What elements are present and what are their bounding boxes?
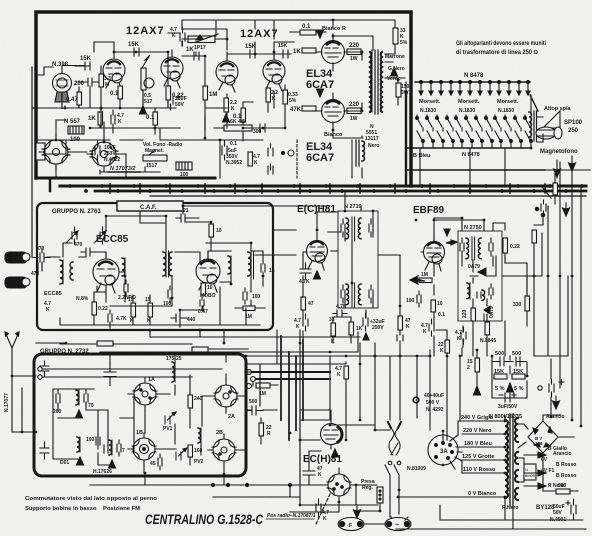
capacitor 0.1 top EL34 xyxy=(290,30,326,35)
capacitor 100 mid xyxy=(168,286,172,302)
wire top rails 2732 xyxy=(42,369,222,377)
resistor 10 xyxy=(209,224,214,237)
capacitor 0.5 xyxy=(541,200,546,215)
variable capacitor tune 1 xyxy=(66,227,78,244)
resistor 0.1 (stage2) xyxy=(153,112,158,125)
N557 coil 100 xyxy=(68,126,84,134)
diode 0A79 lower xyxy=(484,306,490,320)
potentiometer 1P17 xyxy=(188,20,223,43)
wire 2763 interior 1 xyxy=(47,216,166,259)
electrolytic 50uF 50V right xyxy=(566,499,576,520)
IF T1 coil right xyxy=(358,218,361,239)
trimmer PV2 xyxy=(176,448,187,460)
wire top box y140 xyxy=(36,139,143,141)
capacitor 15K (stage4 coupling) xyxy=(238,50,260,58)
dot node xyxy=(281,151,284,154)
electrolytic 16uF 250V xyxy=(95,141,100,160)
wire ech81 1 xyxy=(317,191,361,283)
right border wire inner xyxy=(580,186,582,426)
wire top box misc 1 xyxy=(94,29,274,61)
ground arrow stage3 xyxy=(223,114,230,122)
wire 2732 mesh xyxy=(53,389,134,465)
bus junction dots xyxy=(68,184,584,193)
wire to right column xyxy=(502,236,542,296)
EBF89 labels xyxy=(406,205,522,354)
wire 580 xyxy=(543,459,578,491)
capacitor 4.7K ech81 grid xyxy=(300,263,311,279)
triode V1a 12AX7 xyxy=(103,52,125,90)
wire mid horizontals low xyxy=(90,473,328,497)
capacitor 4.7K mid xyxy=(333,310,347,317)
tube V2a dark electrodes xyxy=(221,63,233,66)
wire magnetofono xyxy=(545,170,590,178)
capacitor 0.47 xyxy=(200,297,204,309)
ground arrow rf2 xyxy=(77,457,84,465)
wire top box misc 4 xyxy=(205,116,285,178)
capacitor pair fono xyxy=(268,144,273,174)
bus line 3 thin xyxy=(150,195,586,197)
resistor 1K cathode xyxy=(98,112,103,125)
resistor 0.1 xyxy=(118,86,123,99)
capacitor 15K (input) xyxy=(75,62,90,70)
resistor 33K xyxy=(331,323,336,336)
RF cap 0.1 left xyxy=(56,389,60,408)
lamp F xyxy=(338,518,364,531)
wafer switch 2A xyxy=(210,379,242,413)
wire ech osc left xyxy=(300,410,331,485)
ground arrow ech tube xyxy=(332,449,339,457)
pentode EL34 lower xyxy=(316,93,349,130)
ratio detector coil xyxy=(467,283,470,299)
coil cathode ECC85 xyxy=(122,258,125,276)
IF T2 cap left xyxy=(341,285,345,303)
wire horizontal y352 xyxy=(100,332,358,352)
ground arrow divider xyxy=(507,383,514,392)
resistor 0.22 xyxy=(166,86,171,100)
resistor 580 xyxy=(556,489,570,494)
lower rail wire y128 xyxy=(90,125,180,133)
IF transformer box N 2750 xyxy=(458,231,502,321)
RF cap 70 xyxy=(84,390,88,406)
wire bridge xyxy=(518,415,574,459)
underline pos radio xyxy=(266,518,314,520)
tube V2b dark electrodes xyxy=(268,62,280,65)
main selector switch blade xyxy=(530,95,538,111)
resistor 22K ebf xyxy=(445,340,450,353)
ground arrow EL34 upper xyxy=(317,30,324,38)
resistor 47 xyxy=(301,297,306,310)
voltage rail 220V xyxy=(462,433,505,435)
capacitor 4.7K top xyxy=(168,27,185,46)
capacitor below 47K xyxy=(397,332,403,344)
capacitor 100 right xyxy=(243,288,247,304)
capacitor 300 xyxy=(252,124,270,132)
IF T2 cap right xyxy=(369,285,373,303)
resistor 160 xyxy=(188,445,193,457)
top chassis box border xyxy=(36,12,411,186)
resistor 0.1 (stage3 anode) xyxy=(241,108,246,122)
RF coil 3 xyxy=(109,440,112,455)
coil 100 (tone) xyxy=(176,162,192,170)
feedthrough cap left a xyxy=(40,361,49,376)
right border wire outer xyxy=(545,170,572,420)
speaker matching transformer xyxy=(529,110,537,142)
ground arrow ebf89 xyxy=(444,229,450,236)
underline N17073 xyxy=(108,171,140,173)
capacitor 4.7K left xyxy=(108,310,112,326)
IF T3 cap right xyxy=(489,238,493,256)
resistor 4.7K (fono) xyxy=(248,152,253,166)
wire top box misc 3 xyxy=(36,120,126,178)
resistor 1K mid xyxy=(349,322,354,335)
capacitor 4.7K bypass xyxy=(111,110,115,128)
rectifier bridge BY126 xyxy=(528,421,558,453)
resistor 4.7K right top xyxy=(553,183,558,195)
wafer switch 1A xyxy=(128,377,162,411)
Magnetofono arrow xyxy=(554,160,561,177)
ground arrow stage2 xyxy=(140,106,147,114)
wire verticals mid band xyxy=(277,330,460,440)
resistor 33K 5% xyxy=(393,28,398,44)
coil 175-25 xyxy=(172,362,175,382)
wire bottom bus to transformer xyxy=(530,95,532,148)
resistor 0.22 left xyxy=(92,302,97,315)
resistor 220 1W upper xyxy=(347,49,361,55)
resistor 10 MOBO xyxy=(201,283,206,295)
voltage rail 0V xyxy=(398,496,505,498)
tube V1a dark electrodes xyxy=(108,61,120,64)
GRUPPO N.2763 box xyxy=(37,203,273,330)
capacitor 15K (stage2 coupling) xyxy=(120,48,141,56)
wire long verticals mid xyxy=(260,340,417,440)
power transformer primary xyxy=(505,416,508,498)
wire top box misc 2 xyxy=(143,52,253,134)
heavy wire y379 xyxy=(256,378,330,380)
trimmer PV1 xyxy=(165,412,176,424)
heavy verticals to oscillator xyxy=(281,336,303,440)
speaker panel lower border xyxy=(406,169,545,171)
capacitor 500 a xyxy=(492,357,513,366)
speaker panel labels xyxy=(413,41,583,159)
components right of 2732 box xyxy=(246,336,330,444)
balun coil left xyxy=(70,262,73,280)
tube EBF89 xyxy=(424,233,445,271)
wire stage1 anode xyxy=(114,52,136,108)
wire EBF89 bottoms down xyxy=(462,321,505,356)
capacitor 500 xyxy=(247,406,263,415)
capacitor 2.2NPO xyxy=(124,280,128,296)
resistor 3.3M xyxy=(99,74,104,87)
capacitor 440 xyxy=(171,314,188,322)
wafer switch 2B xyxy=(208,434,240,466)
resistor 15K a pw xyxy=(494,374,507,379)
bottom edge of top chassis box xyxy=(36,177,215,180)
resistor 5.6K 4W xyxy=(224,125,252,131)
wire mic grid xyxy=(32,67,36,257)
resistor 47K xyxy=(302,106,316,111)
microphone connector N.398 xyxy=(53,74,72,109)
triode V2a 12AX7 xyxy=(216,52,238,92)
aerial coil xyxy=(60,260,63,284)
paper noise overlay xyxy=(0,0,1,1)
antenna symbol xyxy=(5,332,36,376)
IF T3 coil left xyxy=(466,237,475,260)
voltage rail 125V xyxy=(462,459,505,461)
terminal circles xyxy=(247,370,256,389)
capacitor 470 aerial xyxy=(33,248,50,267)
power transformer 4V secondary xyxy=(515,470,518,482)
ground arrow rf3 xyxy=(109,460,116,468)
IF T2 coil right xyxy=(358,284,361,305)
speaker panel top bus N 8478 xyxy=(415,81,530,83)
power labels xyxy=(461,414,576,497)
electrolytic 5uF 350V xyxy=(222,141,227,160)
wire ebf89 2 xyxy=(421,252,447,356)
wire mic cathode down xyxy=(62,66,101,116)
wire top feedback y20 xyxy=(182,19,355,21)
osc coil xyxy=(198,428,201,443)
main horizontal supply bus line 1 xyxy=(60,185,586,188)
power transformer core xyxy=(510,414,513,506)
resistor 2.2K (stage4) xyxy=(266,88,271,102)
output transformer primary xyxy=(370,50,382,114)
secondary lead 4V xyxy=(524,470,546,476)
arrow down to lamp F xyxy=(354,505,361,518)
triode V2b 12AX7 xyxy=(263,52,285,91)
rotary switch wafer S1a xyxy=(39,135,73,169)
IF T1 cap left xyxy=(341,219,345,237)
capacitor 15 xyxy=(261,258,265,278)
ground arrow EL34 lower xyxy=(317,89,324,97)
voltage selector disc xyxy=(428,431,458,465)
det coil 2 xyxy=(482,290,485,300)
junction dots low xyxy=(211,483,291,486)
wafer switch 3A osc xyxy=(322,468,356,502)
resistor 10 ebf xyxy=(431,300,436,312)
resistor 0.22 right xyxy=(503,238,508,253)
capacitor 470 grid xyxy=(81,248,98,256)
wire 4.7K rail xyxy=(60,344,248,363)
divider loop wires xyxy=(492,356,527,398)
ground arrow ech81 xyxy=(314,271,321,279)
wire ech81 3 xyxy=(345,211,400,335)
electrolytic 40+40uF xyxy=(549,379,564,397)
resistor 0.1 right xyxy=(532,230,537,243)
wire stairs xyxy=(144,354,226,474)
small circle node xyxy=(288,150,294,156)
bottom rail wires xyxy=(300,440,586,529)
wire 33K to transformer xyxy=(355,20,405,78)
wire panel to speaker xyxy=(537,117,543,142)
resistor 1M xyxy=(203,86,208,100)
bullet 40uF xyxy=(413,397,419,403)
wire horizontal y356 xyxy=(246,350,430,406)
cap 100 lower xyxy=(96,433,100,449)
power transformer HT secondary xyxy=(515,418,518,442)
wire ebf89 3 xyxy=(462,256,527,347)
resistor 4.7K on box top right xyxy=(192,347,208,352)
label 50uF 50V N.4001 xyxy=(550,504,566,523)
wire right column 1 xyxy=(534,171,555,276)
capacitor 4.7K ebf xyxy=(429,319,434,336)
wire mains to lamp xyxy=(390,490,408,520)
wire ech81 output to grid row xyxy=(255,230,296,255)
bus junction ticks xyxy=(110,184,545,193)
wire 2763 interior 2 xyxy=(94,272,125,302)
IF T1 cap right xyxy=(369,219,373,237)
electrolytic 25uF 50V cathode xyxy=(168,90,180,110)
input terminals 2732 xyxy=(38,367,42,379)
resistor 15K a xyxy=(131,303,136,317)
IF T1 coil left xyxy=(346,217,355,241)
label 40+40uF 500V N.4292 xyxy=(424,393,444,413)
capacitor 470 lower-left xyxy=(38,263,42,271)
capacitor 500 b xyxy=(516,357,526,366)
IF T3 coil right xyxy=(478,238,481,259)
wire 2763 interior 4 xyxy=(175,243,263,292)
wire nero secondary xyxy=(352,136,362,178)
terminal arrowheads xyxy=(419,91,530,95)
arrow down right xyxy=(563,203,570,216)
wire 2763 bottom row xyxy=(60,287,260,325)
triode V1b 12AX7 xyxy=(161,50,183,88)
output transformer secondary lower xyxy=(352,140,365,166)
GRUPPO 2763 labels xyxy=(31,205,275,324)
resistor 15K b pw xyxy=(512,374,525,379)
wire below panel xyxy=(420,148,505,186)
tube V1b dark electrodes xyxy=(166,59,178,62)
ground arrow rf1 xyxy=(76,410,83,418)
Presa Reg component xyxy=(377,487,383,503)
variable capacitor tune 2 xyxy=(94,227,106,244)
B Bleu vertical wire xyxy=(405,92,407,186)
resistor 15K b xyxy=(148,303,153,317)
grid arrow EBF89 xyxy=(446,240,457,245)
selector fan wires xyxy=(450,435,462,469)
IF T3 cap left xyxy=(460,238,464,256)
trimmer circle xyxy=(144,78,154,88)
capacitor 2K xyxy=(104,363,116,386)
heavy wire y372 xyxy=(252,371,330,373)
rotary switch wafer S1b xyxy=(87,137,121,171)
wire 22R xyxy=(474,350,481,395)
switch bank group 2 N.1830 xyxy=(455,115,494,148)
aerial connector block B4 E4 xyxy=(5,252,30,288)
resistor 330 far xyxy=(525,296,530,311)
power transformer 6V secondary xyxy=(515,452,518,464)
power transformer LT secondary xyxy=(515,488,518,500)
secondary lead 6V xyxy=(524,452,546,458)
main horizontal supply bus line 2 xyxy=(95,190,586,193)
GRUPPO N.2732 box xyxy=(34,354,246,476)
voltage rail 240V xyxy=(458,421,505,435)
N 17073/2 link wire xyxy=(100,170,160,174)
switch bank group 3 N.1830 xyxy=(494,115,533,148)
lamp scala xyxy=(385,518,411,531)
wire EL34 anode loop xyxy=(333,20,363,138)
capacitor 4.7K lower xyxy=(303,314,308,331)
RF coil 2 xyxy=(77,437,80,452)
wire stage4 xyxy=(268,42,294,124)
resistor 240 xyxy=(188,395,193,408)
extra wires top box xyxy=(65,91,285,140)
resistor 1M mid xyxy=(256,383,270,388)
capacitor 1K xyxy=(182,52,204,60)
diode 0A79 upper xyxy=(470,268,496,276)
arrow 40uF right xyxy=(553,396,560,409)
resistor 150 5W xyxy=(396,83,401,97)
voltage rail 110V xyxy=(462,461,505,473)
wire ech81 osc area xyxy=(290,451,385,524)
wire verde junction xyxy=(398,80,406,105)
arrow left AVC xyxy=(410,276,425,284)
switch right top xyxy=(542,187,551,198)
wafer switch 1B xyxy=(128,433,160,466)
resistor 220 vert xyxy=(471,308,476,321)
wire 2732 right mesh xyxy=(156,354,246,465)
wire stage3 xyxy=(168,20,205,130)
border junction box xyxy=(36,143,45,160)
capacitor 200 xyxy=(78,78,100,86)
E(C)H81 labels xyxy=(294,204,411,345)
CAF wire xyxy=(140,206,330,223)
C.A.F. box xyxy=(117,201,183,211)
resistor 47K right xyxy=(398,316,403,330)
wire grid row y39 xyxy=(223,20,255,52)
left wall wire xyxy=(12,376,36,432)
mains plug prongs xyxy=(388,422,401,455)
IF output coil T2 xyxy=(248,251,254,279)
cap 45 xyxy=(158,454,162,470)
resistor 2.2K xyxy=(224,98,229,112)
resistor 4.7K hanging xyxy=(344,366,349,379)
capacitor 4.7K bottom xyxy=(316,499,321,518)
main ground rail wire y108 xyxy=(36,107,176,109)
cap 7 xyxy=(117,440,121,456)
EC(H)81 labels xyxy=(303,454,426,491)
capacitor 15K second (stage4) xyxy=(271,50,291,58)
wire 2763 interior 5 xyxy=(94,276,265,328)
junction dots right xyxy=(535,207,544,216)
wire right column extras xyxy=(534,162,568,388)
RF coil 1 xyxy=(76,390,79,405)
heater rail from transformer xyxy=(505,506,513,529)
speaker panel bottom bus N 8478 xyxy=(406,147,530,149)
capacitor 21 CAF xyxy=(176,214,199,222)
wire mic to left border xyxy=(36,66,85,76)
tube E(C)H81 mid xyxy=(307,232,328,270)
resistor 0.47 (mic load) xyxy=(77,92,82,105)
wire horizontals lower mid xyxy=(246,372,390,430)
resistor 1K EL34 grid xyxy=(302,48,316,53)
electrolytic 32uF 250V xyxy=(363,313,369,340)
IF transformer box N 2719 xyxy=(338,211,378,308)
secondary lead nero xyxy=(524,483,546,489)
triode ECC85 b xyxy=(196,252,220,292)
capacitor 47K ech xyxy=(303,463,315,483)
loudspeaker SP100 250 xyxy=(536,111,562,139)
wire horizontal y343 xyxy=(36,330,360,343)
tube ECC85 xyxy=(93,252,119,293)
wire right of box xyxy=(246,382,278,444)
voltage rail 180V xyxy=(462,446,505,448)
capacitor 100 ebf xyxy=(417,291,421,307)
resistor N.8845 xyxy=(485,322,490,335)
dashed gang line xyxy=(316,494,330,524)
potentiometer 0.5 517 xyxy=(141,55,150,96)
terminal dots top xyxy=(420,81,530,84)
IF transformer T1 xyxy=(163,251,172,277)
